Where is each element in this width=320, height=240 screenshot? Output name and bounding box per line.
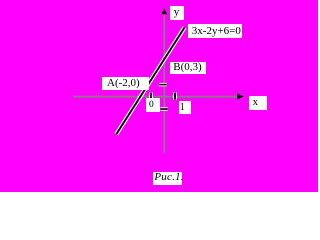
label 0 bbox=[146, 98, 161, 112]
tick x=-1 white casing bbox=[149, 92, 153, 98]
label 3x-2y+6=0 bbox=[188, 24, 242, 38]
caption Рис.1. bbox=[153, 172, 182, 185]
tick x=1 white casing bbox=[173, 92, 177, 100]
label A(-2,0) bbox=[102, 77, 149, 90]
label 1 bbox=[179, 101, 192, 114]
x-axis arrowhead bbox=[237, 93, 243, 99]
y-axis bbox=[163, 12, 165, 153]
tick x=-1 bbox=[150, 93, 152, 99]
tick y=-1 white casing bbox=[160, 107, 168, 110]
tick x=1 bbox=[174, 93, 176, 100]
line 3x-2y+6=0 white casing bbox=[116, 27, 184, 134]
label B(0,3) bbox=[170, 62, 205, 74]
label y bbox=[170, 6, 184, 20]
tick y=-1 bbox=[160, 108, 168, 110]
tick y=1 bbox=[159, 84, 167, 86]
y-axis arrowhead bbox=[162, 8, 168, 14]
line 3x-2y+6=0 bbox=[116, 27, 184, 134]
label x bbox=[249, 96, 267, 110]
tick y=1 white casing bbox=[159, 83, 167, 86]
x-axis bbox=[74, 96, 238, 98]
